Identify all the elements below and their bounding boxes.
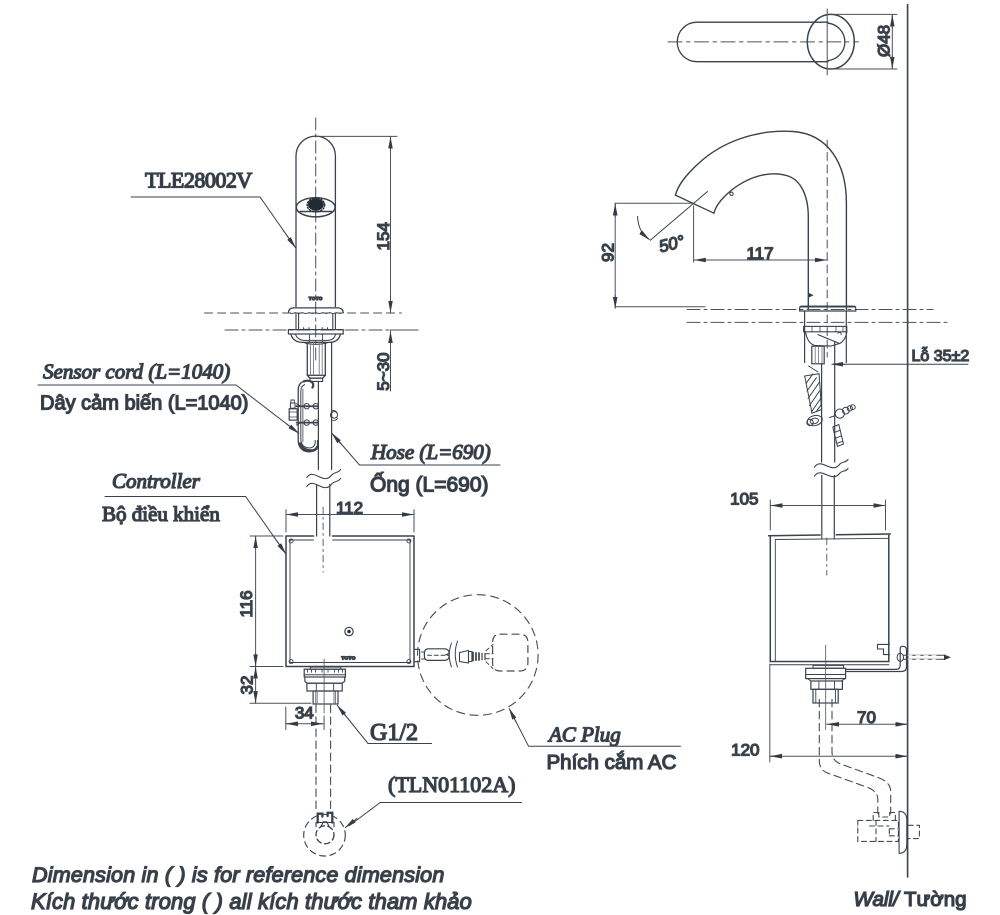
svg-text:Hose (L=690): Hose (L=690) (370, 440, 491, 464)
svg-text:Lỗ 35±2: Lỗ 35±2 (912, 346, 970, 365)
svg-text:Ống (L=690): Ống (L=690) (370, 473, 489, 497)
AC plug connector at controller side (414, 649, 425, 661)
dim 117 extension line (693, 206, 695, 262)
svg-text:112: 112 (336, 499, 363, 518)
controller box (front view) (286, 536, 414, 667)
wing screw on hose (330, 411, 337, 421)
faucet body front view (TLE28002V spout column) (296, 136, 335, 306)
threaded shaft (side view) (812, 346, 824, 364)
svg-text:154: 154 (374, 222, 393, 250)
50 degree reference ray (650, 192, 707, 241)
outlet fitting under box (side view) (806, 665, 846, 703)
sensor eye window (296, 198, 335, 217)
svg-text:5~30: 5~30 (374, 353, 393, 391)
top view: horizontal centerline (668, 41, 859, 43)
cord tail below (side view striped) (833, 425, 844, 447)
dim 105 extension lines (770, 500, 885, 530)
hose (front view) lower run into controller (317, 485, 330, 537)
dim 92 extension line (615, 202, 693, 204)
hose (front view) upper run (318, 343, 331, 470)
outlet fitting under controller (304, 667, 345, 704)
cable break marks (449, 641, 457, 667)
counter top line (front view, dashed) (205, 312, 402, 314)
counter bottom line (side view, dash-dot) (687, 321, 950, 323)
escutcheon plate on counter (front view) (288, 308, 343, 314)
svg-text:Bộ điều khiển: Bộ điều khiển (102, 502, 220, 526)
label Sensor cord (L=1040) (38, 360, 299, 434)
AC plug cable piece (dashed) (424, 649, 449, 661)
label Lo 35+-2 with leader (832, 346, 969, 365)
top view: base circle (Ø48) (807, 14, 854, 69)
lock nut below counter (side view) (804, 326, 847, 331)
side view: gooseneck inner profile (714, 174, 808, 310)
angle stop valve at wall (dashed) (858, 813, 920, 842)
lock flange below counter (288, 328, 343, 334)
box bottom double edge (side view) (770, 664, 889, 666)
svg-text:TOTO: TOTO (341, 656, 355, 662)
sensor cord conduit (side view, striped rod) (805, 366, 822, 413)
LED indicator on controller (345, 627, 353, 635)
svg-text:Kích thước trong ( ) all kích: Kích thước trong ( ) all kích thước tham… (31, 889, 472, 914)
svg-text:Dây cảm biến (L=1040): Dây cảm biến (L=1040) (40, 393, 248, 415)
AC plug strain relief (460, 651, 486, 664)
counter top line (side view, dash-dot) (687, 309, 933, 311)
svg-text:Phích cắm AC: Phích cắm AC (547, 751, 677, 774)
cord clamp with screws (289, 400, 318, 425)
svg-text:G1/2: G1/2 (370, 720, 418, 746)
dim 34 extension lines (286, 707, 324, 730)
svg-text:70: 70 (857, 708, 876, 727)
wall line (right edge) (907, 5, 909, 878)
dim Ø48 extension lines (828, 14, 897, 69)
top view: spout stadium outline (677, 22, 845, 62)
svg-text:(TLN01102A): (TLN01102A) (388, 772, 516, 797)
dim 112 line with arrows (286, 514, 414, 516)
dim 34 line with arrows (286, 723, 323, 725)
hole through counter (side view) (805, 311, 847, 363)
hose break squiggle (side view) (815, 460, 849, 477)
valve wall flange (899, 811, 907, 853)
svg-text:Ø48: Ø48 (875, 25, 894, 57)
svg-text:34: 34 (295, 704, 314, 723)
label G1/2 (337, 705, 431, 746)
supply pipe dashed S-bend to wall valve (819, 699, 890, 813)
hose lower run (side view) (822, 476, 835, 535)
svg-text:Sensor cord (L=1040): Sensor cord (L=1040) (43, 360, 230, 384)
side view: spout outlet face (675, 195, 714, 213)
side view: body centerline (826, 140, 828, 357)
dim 112 extension lines (286, 510, 414, 533)
svg-text:32: 32 (238, 676, 257, 695)
dashed detail circle for AC plug (418, 595, 539, 716)
dim Ø48 line with arrows (891, 14, 893, 69)
stop valve sketch (front view) (316, 813, 334, 844)
hose upper run (side view) (822, 342, 835, 463)
label Hose (L=690) (332, 433, 500, 496)
AC plug prongs (dashed) (486, 645, 493, 669)
fitting centerline (323, 659, 325, 713)
svg-text:Controller: Controller (112, 469, 201, 493)
svg-text:50°: 50° (657, 232, 687, 257)
side view: gooseneck outer profile (675, 131, 846, 309)
side view: escutcheon plate (800, 306, 856, 311)
AC plug head (dashed rounded square) (493, 634, 528, 671)
top view: vertical centerline (826, 9, 828, 75)
label (TLN01102A) (345, 772, 521, 828)
dim 116 extension lines (250, 536, 283, 667)
dim 92 line with arrows (615, 203, 705, 308)
svg-text:Dimension in ( ) is for refere: Dimension in ( ) is for reference dimens… (32, 863, 444, 887)
svg-text:117: 117 (746, 244, 773, 263)
controller box (side view) (769, 534, 891, 662)
hose centerline inside box (322, 507, 324, 572)
label Controller (102, 469, 286, 554)
svg-text:92: 92 (599, 243, 618, 262)
svg-text:Wall/ Tường: Wall/ Tường (854, 888, 967, 911)
dim 70 line with arrows (827, 723, 908, 725)
side view: aerator dot (730, 192, 733, 195)
hose centerline inside box (side view) (826, 538, 828, 575)
cord bead chain (side view) (830, 405, 856, 418)
svg-text:116: 116 (237, 590, 256, 617)
svg-text:120: 120 (731, 741, 759, 760)
svg-text:105: 105 (730, 490, 758, 509)
dim 32 line with arrows (255, 667, 257, 704)
wall screw (897, 653, 951, 661)
mounting bell below counter (291, 334, 341, 344)
dim 154 line with arrows (390, 136, 392, 313)
water supply pipe (dashed, front view) (316, 705, 331, 812)
mounting bell (side view) (806, 332, 847, 346)
shank through counter (front view) (296, 314, 335, 330)
svg-text:TLE28002V: TLE28002V (145, 168, 252, 193)
dim 154 extension line at spout top (316, 135, 397, 137)
dim 116 line with arrows (255, 536, 257, 667)
hose stubs entering box (side view) (822, 535, 835, 540)
label AC Plug with leader (509, 709, 680, 774)
dim 32 extension line (250, 702, 311, 704)
50 degree arc arrow (638, 217, 648, 239)
label TLE28002V with leader (131, 168, 296, 248)
box right-side tab (878, 644, 890, 654)
threaded shaft below bell (307, 342, 325, 381)
svg-text:AC Plug: AC Plug (547, 723, 621, 747)
svg-text:TOTO: TOTO (309, 296, 323, 301)
side view: small mark on body (808, 293, 813, 298)
faucet centerline (front view) (315, 118, 317, 360)
dim 120 extension line (769, 664, 771, 762)
dim 120 line with arrows (770, 755, 908, 757)
counter bottom line (front view, dash-dot) (225, 329, 418, 331)
dim 105 line with arrows (770, 505, 885, 507)
sensor cord loop (front view) (298, 381, 317, 452)
dashed detail circle around valve (TLN01102A) (304, 814, 346, 856)
cord folded end (side view) (806, 414, 823, 427)
fitting centerline (side view) (825, 645, 827, 730)
hose break squiggle (front view) (307, 470, 341, 488)
mounting plate to wall (846, 646, 907, 671)
dim 117 line with arrows (694, 259, 828, 261)
dim 5~30 arrows and stem (390, 331, 392, 391)
